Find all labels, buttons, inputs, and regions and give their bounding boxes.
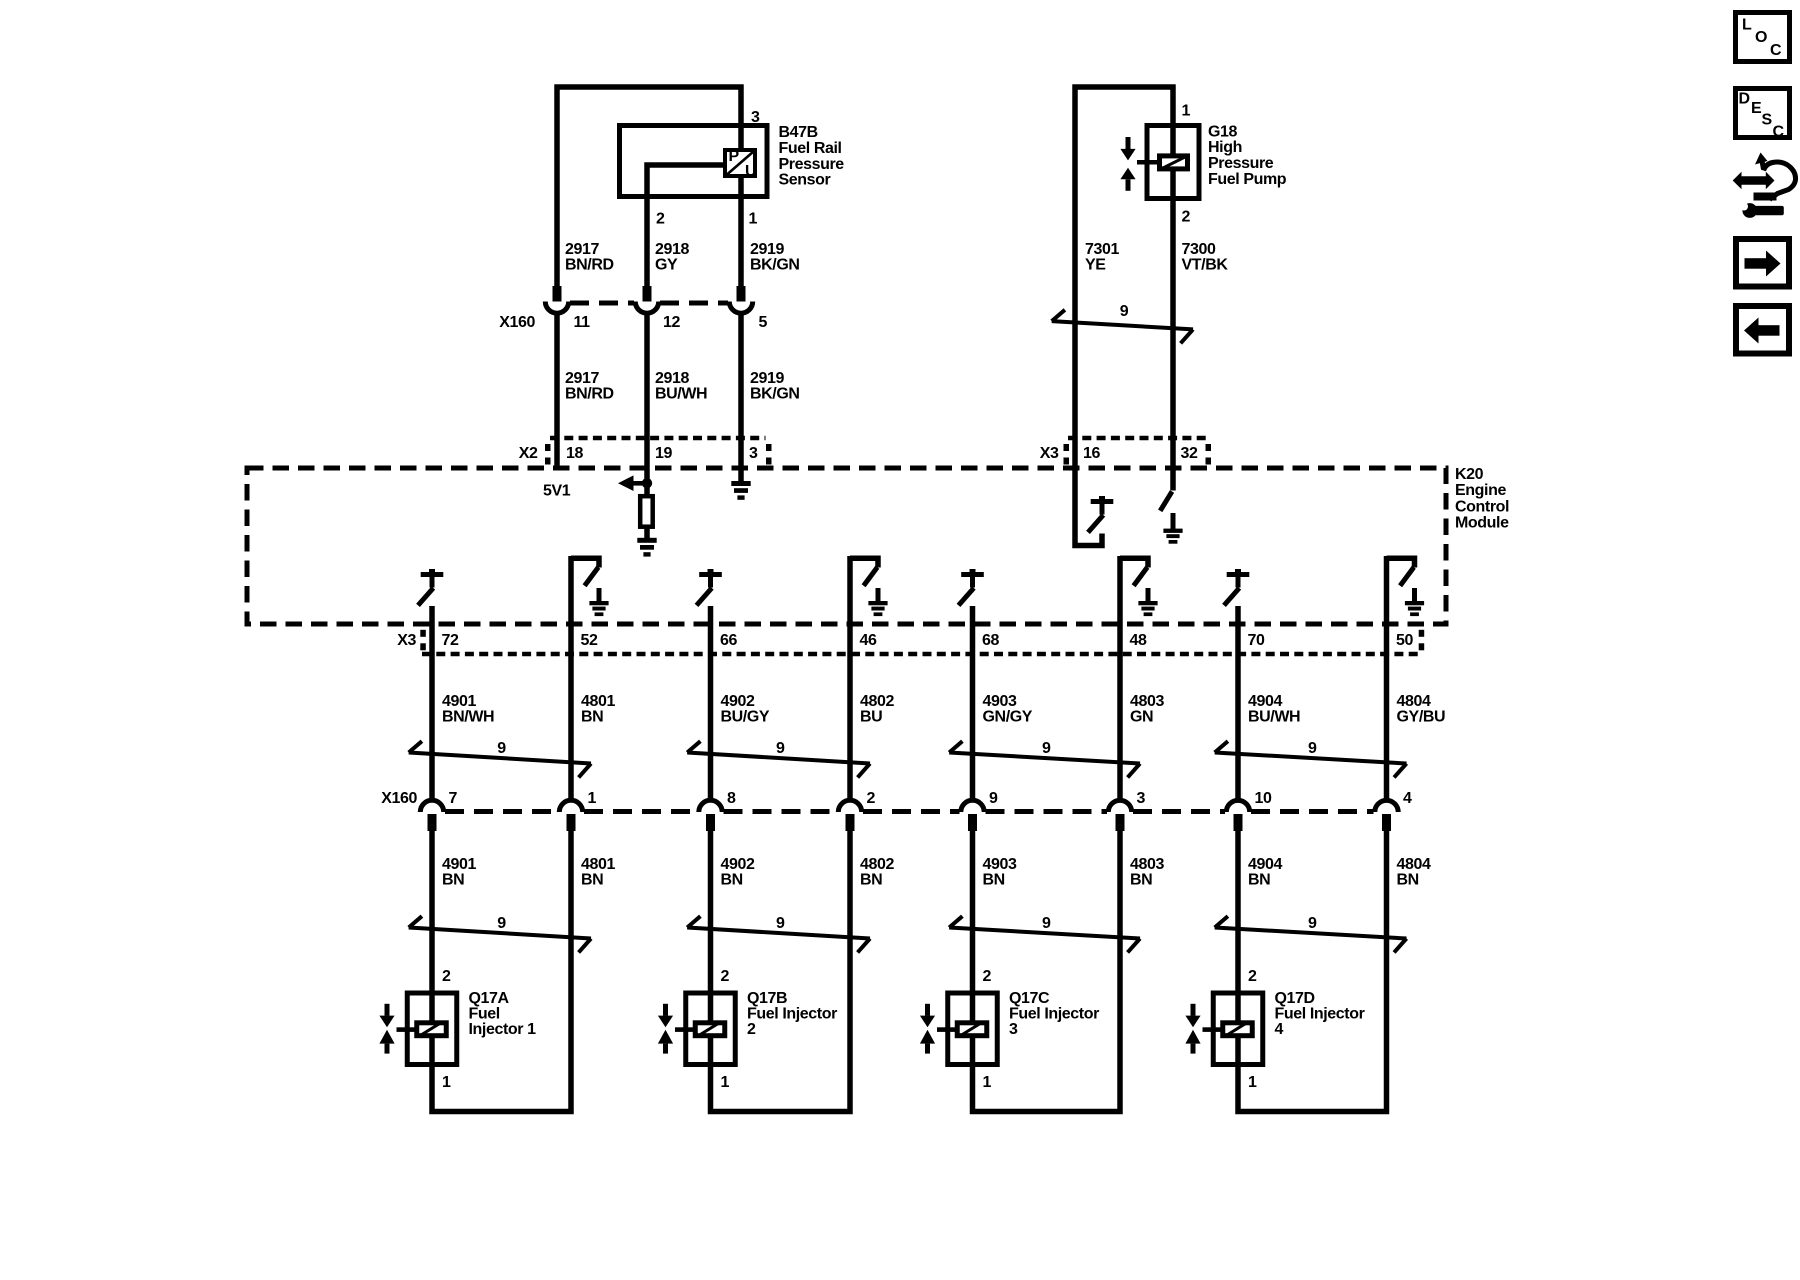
connector X160 bottom dashes 7 [1251, 809, 1374, 814]
fuel injector Q17D [1213, 993, 1263, 1065]
svg-text:High: High [1208, 139, 1242, 156]
svg-text:BN: BN [860, 872, 882, 889]
ECM switch loop pin 50 [1387, 558, 1415, 567]
svg-text:BU: BU [860, 709, 882, 726]
svg-text:4: 4 [1275, 1021, 1284, 1038]
wire loop Q17A [432, 831, 571, 1112]
svg-text:2: 2 [721, 968, 730, 985]
wire 2917 BN/RD supply loop vertical [554, 85, 560, 289]
svg-text:72: 72 [442, 632, 459, 649]
icon DESC box [1736, 89, 1790, 138]
wire ECM pin 52 down [568, 556, 574, 800]
twisted pair crossing 9 row1 pair 3 [949, 753, 1140, 764]
wire loop Q17B [711, 831, 851, 1112]
svg-text:4: 4 [1403, 790, 1412, 807]
svg-text:O: O [1755, 29, 1767, 46]
svg-text:BK/GN: BK/GN [750, 257, 800, 274]
svg-text:Q17B: Q17B [747, 990, 787, 1007]
pump coil tick [1137, 160, 1157, 165]
svg-text:3: 3 [749, 445, 758, 462]
ECM driver switch pin 72 [429, 569, 435, 572]
svg-text:BN: BN [581, 872, 603, 889]
fuel injector Q17A [407, 993, 457, 1065]
ECM K20 dashed border [247, 468, 1446, 624]
svg-text:GN: GN [1130, 709, 1153, 726]
svg-text:70: 70 [1248, 632, 1265, 649]
junction dot pin 19 [642, 478, 652, 488]
connector X3 top dotted line [1068, 436, 1206, 441]
svg-text:1: 1 [1248, 1074, 1257, 1091]
svg-text:5V1: 5V1 [543, 483, 571, 500]
svg-text:8: 8 [727, 790, 736, 807]
pump solenoid diagonal [1163, 157, 1186, 169]
svg-text:BN: BN [721, 872, 743, 889]
connector X160 bottom dashes 5 [986, 809, 1108, 814]
svg-text:4804: 4804 [1397, 856, 1431, 873]
connector X160 dashes 12-5 [660, 301, 728, 306]
wire supply loop top run [555, 84, 744, 90]
connector X160 terminal pin 7 [420, 800, 443, 812]
svg-text:BN: BN [1397, 872, 1419, 889]
svg-text:Injector 1: Injector 1 [469, 1021, 537, 1038]
ground at pin 32 [1163, 529, 1182, 533]
svg-text:9: 9 [1120, 303, 1129, 320]
svg-text:4803: 4803 [1130, 856, 1164, 873]
twisted pair crossing 9 row2 pair 3 [949, 928, 1140, 939]
svg-text:VT/BK: VT/BK [1182, 257, 1229, 274]
svg-text:Pressure: Pressure [779, 156, 845, 173]
twisted pair crossing 9 row2 pair 4 [1215, 928, 1407, 939]
svg-text:4801: 4801 [581, 693, 615, 710]
svg-text:68: 68 [982, 632, 999, 649]
svg-text:9: 9 [776, 915, 785, 932]
svg-text:1: 1 [749, 211, 758, 228]
svg-text:2918: 2918 [655, 370, 689, 387]
connector X2 left bracket [545, 444, 551, 451]
connector X160 bottom dashes 2 [584, 809, 698, 814]
svg-text:X3: X3 [1040, 445, 1059, 462]
svg-text:1: 1 [588, 790, 597, 807]
svg-text:3: 3 [751, 109, 760, 126]
svg-text:BK/GN: BK/GN [750, 386, 800, 403]
svg-text:1: 1 [721, 1074, 730, 1091]
wire pin 32 stub [1170, 466, 1176, 491]
svg-text:BN: BN [983, 872, 1005, 889]
svg-text:Module: Module [1455, 515, 1509, 532]
svg-text:Q17D: Q17D [1275, 990, 1315, 1007]
svg-text:BN: BN [442, 872, 464, 889]
wire sensor pin 3 / pin 1 vertical [738, 85, 744, 289]
connector X160 terminal pin 2 [838, 800, 861, 812]
fuel injector Q17B [686, 993, 736, 1065]
svg-text:9: 9 [1042, 915, 1051, 932]
connector X160 terminal pin 1 [559, 800, 582, 812]
svg-text:9: 9 [1308, 740, 1317, 757]
svg-text:4904: 4904 [1248, 693, 1282, 710]
svg-text:66: 66 [720, 632, 737, 649]
connector X3 top right bracket [1206, 444, 1212, 451]
pump solenoid coil [1160, 156, 1188, 169]
wire ECM pin 48 down [1117, 556, 1123, 800]
wire 2917 below X160 [554, 313, 560, 470]
wire ECM pin 68 down [970, 606, 976, 800]
svg-text:YE: YE [1085, 257, 1106, 274]
svg-text:Fuel Injector: Fuel Injector [747, 1006, 837, 1023]
svg-text:10: 10 [1255, 790, 1272, 807]
svg-text:7301: 7301 [1085, 241, 1119, 258]
ground stub pin 50 [1412, 588, 1417, 602]
twisted pair crossing 9 pump [1052, 321, 1193, 329]
ground stub pin 52 [597, 588, 602, 602]
svg-text:GY: GY [655, 257, 678, 274]
twisted pair crossing 9 row2 pair 2 [687, 928, 870, 939]
svg-text:1: 1 [442, 1074, 451, 1091]
ECM switch lever pin 46 [864, 567, 878, 586]
svg-text:2: 2 [1248, 968, 1257, 985]
svg-text:X2: X2 [519, 445, 538, 462]
sensor B47B outer box [620, 126, 768, 197]
wire 7301 YE from ECM X3-16 up to loop [1072, 85, 1078, 471]
ECM switch loop pin 52 [571, 558, 599, 567]
svg-text:B47B: B47B [779, 124, 818, 141]
svg-text:E: E [1751, 100, 1762, 117]
connector X2 dotted line [550, 436, 766, 441]
connector X3 bottom right bracket [1419, 630, 1425, 637]
connector X160 terminal pin 12 [643, 286, 652, 302]
ground at ECM pin 50 [1405, 601, 1424, 605]
svg-text:BN/RD: BN/RD [565, 386, 614, 403]
svg-text:4801: 4801 [581, 856, 615, 873]
svg-text:BU/WH: BU/WH [655, 386, 707, 403]
connector X160 terminal pin 8 [699, 800, 722, 812]
svg-text:32: 32 [1181, 445, 1198, 462]
svg-text:4901: 4901 [442, 856, 476, 873]
pump valve triangle up [1120, 168, 1135, 180]
svg-text:1: 1 [983, 1074, 992, 1091]
svg-text:2917: 2917 [565, 370, 599, 387]
connector X160 terminal pin 10 [1226, 800, 1249, 812]
connector X160 dashes 11-12 [570, 301, 634, 306]
connector X160 terminal pin 3 [1108, 800, 1131, 812]
twisted pair crossing 9 row1 pair 2 [687, 753, 870, 764]
svg-text:7300: 7300 [1182, 241, 1216, 258]
wire ECM pin 50 down [1384, 556, 1390, 800]
wire ECM pin 46 down [847, 556, 853, 800]
pump valve triangle down [1120, 149, 1135, 161]
svg-text:9: 9 [497, 740, 506, 757]
ECM switch loop pin 46 [850, 558, 878, 567]
icon LOC box [1736, 13, 1790, 62]
svg-text:2: 2 [1182, 209, 1191, 226]
svg-text:C: C [1773, 124, 1785, 141]
connector X160 terminal pin 11 [553, 286, 562, 302]
connector X3 top left bracket [1064, 444, 1070, 451]
svg-text:BN/RD: BN/RD [565, 257, 614, 274]
ECM switch loop pin 48 [1120, 558, 1148, 567]
twisted pair crossing 9 row2 pair 1 [409, 928, 591, 939]
svg-text:Engine: Engine [1455, 482, 1506, 499]
icon back arrow box [1736, 306, 1789, 354]
svg-text:Fuel Pump: Fuel Pump [1208, 171, 1287, 188]
fuel injector Q17C [948, 993, 998, 1065]
svg-text:X160: X160 [499, 314, 535, 331]
svg-text:3: 3 [1009, 1021, 1018, 1038]
connector X160 bottom dashes 4 [863, 809, 960, 814]
ground at ECM pin 52 [589, 601, 608, 605]
5V1 reference arrow [618, 475, 634, 491]
svg-text:4902: 4902 [721, 856, 755, 873]
svg-text:4802: 4802 [860, 856, 894, 873]
svg-text:X3: X3 [397, 632, 416, 649]
ECM switch lever pin 52 [585, 567, 599, 586]
wire ECM pin 70 down [1235, 606, 1241, 800]
svg-text:4903: 4903 [983, 693, 1017, 710]
ground at ECM pin 48 [1138, 601, 1157, 605]
svg-text:Sensor: Sensor [779, 172, 831, 189]
svg-text:50: 50 [1396, 632, 1413, 649]
wire 2918 below X160 [644, 313, 650, 497]
svg-text:2: 2 [656, 211, 665, 228]
svg-text:9: 9 [1308, 915, 1317, 932]
svg-text:2918: 2918 [655, 241, 689, 258]
svg-text:18: 18 [566, 445, 583, 462]
svg-text:2917: 2917 [565, 241, 599, 258]
svg-text:BN: BN [581, 709, 603, 726]
svg-text:4901: 4901 [442, 693, 476, 710]
ground stub pin 48 [1146, 588, 1151, 602]
svg-text:2919: 2919 [750, 370, 784, 387]
svg-text:9: 9 [1042, 740, 1051, 757]
connector X2 right bracket [766, 444, 772, 451]
svg-text:Pressure: Pressure [1208, 155, 1274, 172]
svg-text:2: 2 [442, 968, 451, 985]
svg-text:BN: BN [1130, 872, 1152, 889]
svg-text:4902: 4902 [721, 693, 755, 710]
svg-text:Fuel Injector: Fuel Injector [1275, 1006, 1365, 1023]
svg-text:Control: Control [1455, 498, 1509, 515]
wire 2919 below X160 [738, 313, 744, 481]
ECM driver switch pin 68 [970, 569, 976, 572]
ECM switch lever pin 32 [1160, 492, 1172, 511]
svg-text:4804: 4804 [1397, 693, 1431, 710]
svg-text:9: 9 [776, 740, 785, 757]
ground under resistor [637, 538, 656, 543]
svg-text:Fuel: Fuel [469, 1006, 500, 1023]
resistor R (pull-up) [640, 496, 653, 527]
svg-text:3: 3 [1137, 790, 1146, 807]
ground stub pin 46 [876, 588, 881, 602]
svg-text:7: 7 [449, 790, 458, 807]
icon forward arrow box [1736, 239, 1789, 287]
P/U transducer U1 box [725, 150, 755, 176]
wire 7300 VT/BK pump pins 1-2 vertical [1170, 85, 1176, 471]
svg-text:9: 9 [497, 915, 506, 932]
connector X160 bottom dashes 6 [1133, 809, 1225, 814]
svg-text:Fuel Rail: Fuel Rail [779, 140, 842, 157]
connector X160 terminal pin 5 [737, 286, 746, 302]
svg-text:Q17A: Q17A [469, 990, 510, 1007]
svg-text:46: 46 [860, 632, 877, 649]
svg-text:GN/GY: GN/GY [983, 709, 1033, 726]
svg-text:9: 9 [989, 790, 998, 807]
svg-text:52: 52 [581, 632, 598, 649]
svg-text:2: 2 [747, 1021, 756, 1038]
svg-text:G18: G18 [1208, 123, 1238, 140]
wire ECM pin 72 down [429, 606, 435, 800]
svg-text:GY/BU: GY/BU [1397, 709, 1446, 726]
connector X3 bottom left bracket [420, 630, 426, 637]
connector X160 terminal pin 9 [961, 800, 984, 812]
svg-text:P: P [729, 148, 740, 165]
ground stub pin 32 [1171, 513, 1176, 529]
svg-text:16: 16 [1083, 445, 1100, 462]
svg-text:48: 48 [1130, 632, 1147, 649]
svg-text:19: 19 [655, 445, 672, 462]
svg-text:4803: 4803 [1130, 693, 1164, 710]
svg-text:4903: 4903 [983, 856, 1017, 873]
svg-text:12: 12 [663, 314, 680, 331]
svg-text:2: 2 [983, 968, 992, 985]
svg-text:C: C [1770, 42, 1782, 59]
svg-text:U: U [745, 163, 756, 180]
wire pump loop top run [1073, 84, 1176, 90]
ECM switch lever pin 50 [1400, 567, 1414, 586]
P/U transducer diagonal [727, 152, 754, 175]
wire loop Q17C [973, 831, 1121, 1112]
connector X160 bottom dashes 1 [445, 809, 558, 814]
wire loop Q17D [1238, 831, 1387, 1112]
svg-text:2919: 2919 [750, 241, 784, 258]
wire sensor pin 2 internal run [647, 165, 725, 288]
svg-text:4802: 4802 [860, 693, 894, 710]
ECM switch lever pin 48 [1134, 567, 1148, 586]
icon shortcut arrows-wrench [1733, 172, 1775, 189]
svg-text:BU/WH: BU/WH [1248, 709, 1300, 726]
wire resistor to ground [644, 526, 650, 540]
ECM driver switch pin 66 [708, 569, 714, 572]
wire pin16 J-hook [1075, 468, 1102, 546]
connector X3 bottom dotted line [422, 652, 1420, 657]
svg-text:4904: 4904 [1248, 856, 1282, 873]
svg-text:11: 11 [574, 314, 591, 331]
svg-text:S: S [1762, 112, 1773, 129]
twisted pair crossing 9 row1 pair 4 [1215, 753, 1407, 764]
connector X160 terminal pin 4 [1375, 800, 1398, 812]
twisted pair crossing 9 row1 pair 1 [409, 753, 591, 764]
svg-text:BN: BN [1248, 872, 1270, 889]
svg-text:2: 2 [867, 790, 876, 807]
svg-text:BU/GY: BU/GY [721, 709, 770, 726]
svg-text:K20: K20 [1455, 466, 1484, 483]
ECM driver switch pin 70 [1235, 569, 1241, 572]
svg-text:1: 1 [1182, 103, 1191, 120]
svg-text:X160: X160 [381, 790, 417, 807]
svg-text:Q17C: Q17C [1009, 990, 1050, 1007]
svg-text:Fuel Injector: Fuel Injector [1009, 1006, 1099, 1023]
pump G18 outer box [1147, 126, 1199, 199]
ground at ECM pin 46 [868, 601, 887, 605]
svg-text:L: L [1742, 17, 1752, 34]
svg-text:D: D [1739, 91, 1750, 108]
wire ECM pin 66 down [708, 606, 714, 800]
ground at X2 pin 3 [731, 481, 750, 486]
pump valve top stub [1126, 137, 1131, 149]
pump valve bottom stub [1126, 179, 1131, 191]
connector X160 bottom dashes 3 [724, 809, 838, 814]
ECM driver switch pin 16 [1099, 496, 1105, 499]
svg-text:BN/WH: BN/WH [442, 709, 494, 726]
svg-text:5: 5 [759, 314, 768, 331]
